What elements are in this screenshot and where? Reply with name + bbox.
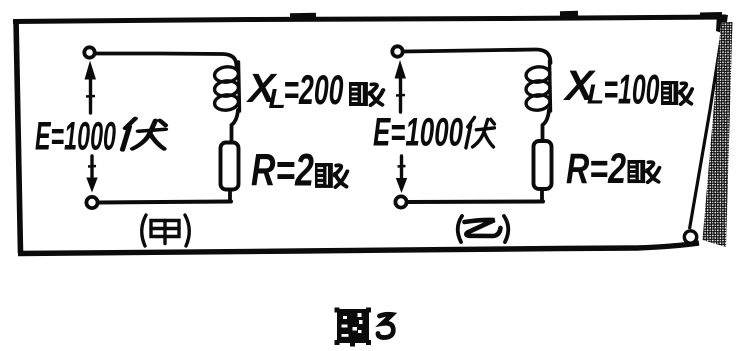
page fold line right <box>690 27 724 229</box>
value label XL=200歐 (circuit 甲) <box>246 65 383 114</box>
svg-text:R=2: R=2 <box>566 145 626 193</box>
svg-text:=100: =100 <box>604 66 660 113</box>
wire top (circuit 甲) <box>96 54 237 67</box>
wire resistor to bottom (circuit 甲) <box>228 191 232 201</box>
value label E=1000伏 (circuit 甲) <box>35 115 166 159</box>
torn edge hatching <box>703 22 733 247</box>
source arrow up (circuit 乙) <box>395 60 407 112</box>
terminal bottom-left (circuit 甲) <box>86 197 97 208</box>
figure caption 圖5 <box>335 308 394 347</box>
inductor XL coil (circuit 甲) <box>214 62 240 112</box>
value label R=2歐 (circuit 甲) <box>251 145 347 196</box>
resistor R body (circuit 乙) <box>534 141 552 189</box>
wire coil to resistor (circuit 甲) <box>232 110 239 143</box>
wire bottom (circuit 乙) <box>408 200 543 205</box>
source arrow down (circuit 乙) <box>396 156 407 193</box>
wire coil to resistor (circuit 乙) <box>543 110 550 141</box>
frame left border <box>16 19 21 253</box>
wire top (circuit 乙) <box>404 50 551 64</box>
terminal bottom-left (circuit 乙) <box>395 196 406 207</box>
source arrow up (circuit 甲) <box>85 61 97 114</box>
wire resistor to bottom (circuit 乙) <box>540 191 544 202</box>
terminal top-left (circuit 乙) <box>392 46 402 56</box>
caption (乙) <box>458 216 509 242</box>
svg-text:=200: =200 <box>284 66 344 113</box>
value label E=1000伏 (circuit 乙) <box>373 111 494 155</box>
value label R=2歐 (circuit 乙) <box>566 145 659 193</box>
frame top border <box>13 14 726 22</box>
svg-text:L: L <box>587 79 604 110</box>
page corner blob <box>716 14 728 34</box>
wire bottom (circuit 甲) <box>99 202 231 203</box>
inductor XL coil (circuit 乙) <box>525 61 551 112</box>
svg-text:R=2: R=2 <box>251 145 314 196</box>
terminal top-left (circuit 甲) <box>84 47 94 57</box>
resistor R body (circuit 甲) <box>221 143 239 190</box>
svg-text:E=1000: E=1000 <box>373 111 463 155</box>
svg-text:E=1000: E=1000 <box>35 115 116 159</box>
value label XL=100歐 (circuit 乙) <box>563 62 692 113</box>
source arrow down (circuit 甲) <box>86 156 97 193</box>
caption (甲) <box>142 215 190 246</box>
frame bottom border <box>18 243 699 254</box>
page curl loop <box>684 231 696 243</box>
